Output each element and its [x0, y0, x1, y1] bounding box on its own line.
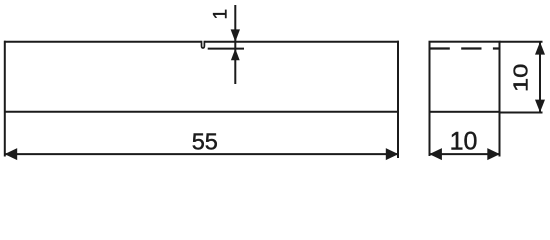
side view right edge 10-width extension line: [499, 112, 501, 157]
svg-text:10: 10: [450, 127, 478, 155]
55 dimension line: [5, 153, 398, 155]
front view top edge left segment: [4, 41, 201, 43]
10 height dimension line: [539, 42, 541, 113]
notch depth lower arrow: [231, 49, 240, 61]
front view left edge + 55 extension line: [4, 41, 6, 157]
55 left arrow: [5, 148, 18, 160]
notch depth upper arrow: [231, 29, 240, 42]
10 width dimension line: [430, 153, 500, 155]
55 right arrow: [386, 148, 399, 160]
front view bottom edge: [4, 111, 399, 113]
notch slot: [202, 41, 205, 48]
side view left edge 10-width extension line: [429, 112, 431, 156]
svg-text:1: 1: [210, 9, 231, 20]
hidden notch floor line (dashed): [430, 47, 501, 49]
notch floor extension line: [208, 48, 244, 50]
svg-text:10: 10: [509, 64, 532, 93]
side view outline: [430, 42, 500, 112]
10 height bottom arrow: [535, 100, 545, 113]
front view right edge + 55 extension line: [397, 41, 399, 158]
10 height top extension line: [500, 41, 543, 43]
notch depth dimension line: [234, 5, 236, 84]
front view top edge right segment: [205, 41, 399, 43]
10 height top arrow: [535, 42, 545, 55]
svg-text:55: 55: [192, 128, 218, 154]
10 height bottom extension line: [500, 112, 543, 114]
10 width right arrow: [487, 148, 500, 160]
10 width left arrow: [429, 148, 442, 160]
